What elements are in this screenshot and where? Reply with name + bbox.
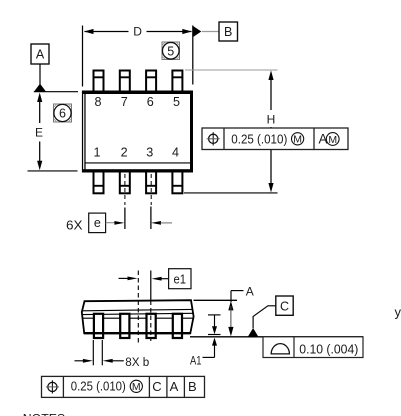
svg-text:7: 7	[121, 95, 128, 109]
svg-text:y: y	[395, 305, 401, 320]
svg-text:0.25 (.010): 0.25 (.010)	[231, 131, 287, 146]
svg-text:5: 5	[167, 44, 174, 58]
svg-text:e: e	[94, 216, 101, 230]
svg-text:e1: e1	[174, 272, 187, 286]
svg-text:0.25 (.010): 0.25 (.010)	[71, 378, 126, 393]
svg-text:6: 6	[147, 95, 154, 109]
svg-text:6X: 6X	[66, 217, 83, 232]
svg-text:H: H	[267, 113, 276, 127]
svg-text:5: 5	[173, 95, 180, 109]
svg-text:C: C	[280, 299, 289, 313]
svg-text:A: A	[246, 285, 254, 299]
svg-text:0.10 (.004): 0.10 (.004)	[299, 342, 358, 357]
svg-text:A: A	[170, 379, 179, 394]
svg-text:2: 2	[121, 145, 128, 159]
svg-text:8X b: 8X b	[125, 355, 149, 369]
svg-text:C: C	[152, 379, 161, 394]
svg-text:D: D	[133, 25, 142, 39]
svg-text:3: 3	[146, 145, 153, 159]
svg-text:6: 6	[59, 107, 66, 121]
svg-text:B: B	[224, 25, 232, 39]
svg-text:M: M	[293, 134, 302, 146]
svg-text:4: 4	[172, 145, 179, 159]
svg-text:E: E	[35, 126, 43, 140]
svg-text:M: M	[132, 381, 141, 393]
svg-text:8: 8	[94, 95, 101, 109]
svg-text:A1: A1	[190, 353, 202, 367]
svg-text:M: M	[328, 134, 337, 146]
svg-text:A: A	[36, 48, 45, 62]
svg-text:B: B	[188, 379, 197, 394]
svg-text:NOTES: NOTES	[23, 411, 65, 416]
svg-text:1: 1	[93, 145, 100, 159]
